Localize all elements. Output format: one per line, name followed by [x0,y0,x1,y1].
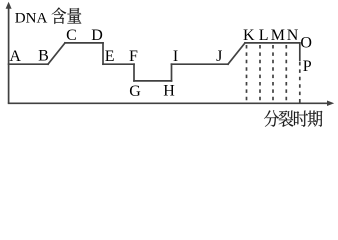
svg-text:C: C [66,27,77,44]
segment C-D (4C plateau) [65,42,103,44]
dashed line at N [285,45,287,103]
x-axis [8,101,334,106]
y-axis title hanzi "含" [52,8,66,24]
svg-text:O: O [300,34,312,51]
svg-text:E: E [105,48,115,65]
svg-text:D: D [91,27,103,44]
dashed line at L [259,45,261,103]
x-axis title "分裂时期" [264,110,322,127]
svg-text:F: F [129,48,138,65]
svg-text:I: I [173,48,178,65]
segment A-B (2C level) [9,63,48,65]
segment J-K rise (S phase) [228,43,245,64]
segment B-C rise (S phase) [48,43,65,64]
svg-text:N: N [287,27,299,44]
segment G-H (1C level) [134,80,172,82]
segment N-O final drop [299,43,301,61]
dashed line at O/P drop [299,62,301,103]
segment D-E drop [102,43,104,64]
svg-text:G: G [129,83,141,100]
dashed line at M [272,45,274,103]
svg-text:H: H [163,83,175,100]
svg-text:P: P [303,58,312,75]
dashed line at K [246,45,248,103]
svg-text:A: A [9,48,21,65]
y-axis [6,2,12,104]
svg-text:L: L [259,27,269,44]
svg-text:J: J [216,48,222,65]
segment F-G drop [133,64,135,81]
segment K-N (4C plateau) [245,42,300,44]
svg-text:K: K [243,27,255,44]
segment E-F (2C level) [103,63,134,65]
svg-text:B: B [38,48,49,65]
svg-text:DNA: DNA [15,11,48,27]
segment I-J (2C level) [172,63,229,65]
y-axis title hanzi "量" [67,8,81,24]
segment H-I rise (fertilization) [171,64,173,81]
svg-text:M: M [271,27,285,44]
